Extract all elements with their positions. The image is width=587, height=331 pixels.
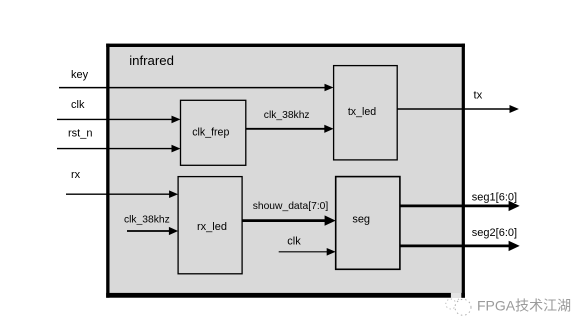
module box infrared: [106, 44, 465, 298]
wire clk (input to seg): [279, 248, 336, 256]
port label rx: [71, 169, 81, 181]
wire key: [59, 84, 334, 92]
wire rst_n: [57, 145, 181, 153]
wire rx: [66, 190, 178, 198]
port label rst_n: [68, 128, 92, 140]
svg-text:clk_38khz: clk_38khz: [264, 110, 310, 121]
port label tx: [474, 90, 483, 102]
watermark text FPGA技术江湖: [477, 297, 571, 313]
svg-text:rst_n: rst_n: [68, 128, 92, 140]
watermark logo: [446, 293, 471, 316]
svg-text:rx: rx: [71, 169, 81, 181]
svg-text:clk_frep: clk_frep: [192, 127, 229, 139]
svg-text:rx_led: rx_led: [197, 221, 227, 233]
port label seg1[6:0]: [472, 191, 517, 203]
wire clk_38khz (input to rx_led): [127, 227, 178, 235]
wire clk_38khz (clk_frep to tx_led): [246, 125, 334, 133]
net label clk_38khz (clk_frep to tx_led): [264, 110, 310, 121]
wire clk: [57, 116, 181, 124]
wire shouw_data[7:0] (rx_led to seg): [242, 215, 336, 225]
net label clk_38khz (input to rx_led): [124, 214, 170, 225]
net label shouw_data[7:0]: [253, 201, 329, 212]
port label seg2[6:0]: [472, 227, 517, 239]
port label key: [71, 69, 89, 81]
svg-text:infrared: infrared: [129, 53, 174, 68]
block clk_frep: [181, 100, 246, 165]
svg-text:FPGA技术江湖: FPGA技术江湖: [477, 297, 571, 313]
svg-text:seg2[6:0]: seg2[6:0]: [472, 227, 517, 239]
block tx_led: [334, 66, 398, 160]
label infrared: [129, 53, 174, 68]
wire seg1[6:0] (seg output): [400, 201, 520, 211]
svg-text:shouw_data[7:0]: shouw_data[7:0]: [253, 201, 329, 212]
svg-text:clk: clk: [71, 99, 85, 111]
svg-text:tx: tx: [474, 90, 483, 102]
svg-text:key: key: [71, 69, 89, 81]
wire seg2[6:0] (seg output): [400, 241, 520, 251]
port label clk: [71, 99, 85, 111]
net label clk (input to seg): [287, 236, 301, 248]
block rx_led: [178, 177, 242, 274]
block seg: [336, 177, 400, 270]
svg-text:tx_led: tx_led: [348, 106, 376, 118]
svg-text:clk: clk: [287, 236, 301, 248]
svg-text:seg: seg: [352, 214, 370, 226]
wire tx (tx_led output): [397, 105, 519, 113]
svg-text:clk_38khz: clk_38khz: [124, 214, 170, 225]
